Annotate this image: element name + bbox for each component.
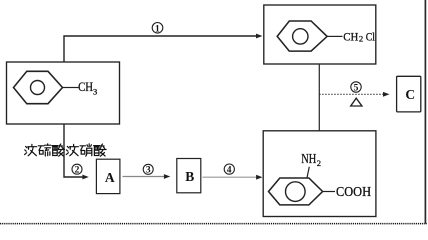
label CH2Cl <box>343 30 375 44</box>
right page border <box>424 0 426 224</box>
box B <box>177 159 201 193</box>
wire 1 (toluene to benzyl chloride) <box>64 34 263 62</box>
bottom dotted page border <box>0 223 427 225</box>
svg-text:COOH: COOH <box>336 184 371 199</box>
svg-text:NH: NH <box>301 151 316 166</box>
dashed wire 5 to C <box>319 92 389 97</box>
svg-text:1: 1 <box>155 24 160 34</box>
wire 2 (toluene down to A) <box>64 124 89 179</box>
svg-text:CH: CH <box>78 80 93 94</box>
bond to CH2Cl <box>327 35 342 37</box>
svg-text:A: A <box>105 170 115 185</box>
label NH2 <box>301 151 321 168</box>
reagent text nong-liu-suan-nong-xiao-suan <box>25 144 107 156</box>
box toluene <box>7 62 120 124</box>
arrow label 3 <box>143 164 153 175</box>
benzene ring 2 (benzyl chloride) <box>277 21 327 51</box>
wire 3 (A to B) <box>123 174 171 179</box>
bond to NH2 <box>307 167 309 178</box>
svg-text:2: 2 <box>75 166 80 176</box>
svg-text:C: C <box>405 87 415 102</box>
bond to CH3 <box>63 87 79 89</box>
svg-text:5: 5 <box>354 83 359 93</box>
wire 4 (B to anthranilic acid) <box>203 175 263 180</box>
benzene ring 3 (anthranilic acid) <box>269 178 323 205</box>
arrow label 4 <box>224 164 234 175</box>
box C <box>397 76 421 112</box>
svg-text:Cl: Cl <box>366 30 376 44</box>
svg-text:3: 3 <box>93 87 97 97</box>
svg-text:2: 2 <box>317 158 321 168</box>
bond to COOH <box>323 191 335 193</box>
wire benzyl chloride down to big box <box>318 64 320 131</box>
arrow label 5 <box>351 82 361 94</box>
label COOH <box>336 184 371 199</box>
arrow label 1 <box>152 23 163 35</box>
svg-text:B: B <box>185 169 194 184</box>
delta (heat) symbol <box>351 98 362 106</box>
label CH3 <box>78 80 97 97</box>
svg-text:CH: CH <box>343 30 358 44</box>
svg-text:2: 2 <box>359 33 363 43</box>
arrow label 2 <box>72 164 82 175</box>
box A <box>96 159 120 193</box>
benzene ring 1 (toluene) <box>14 71 63 103</box>
svg-text:3: 3 <box>146 166 151 176</box>
box anthranilic acid <box>263 131 376 217</box>
svg-text:4: 4 <box>227 165 232 175</box>
box benzyl chloride <box>264 5 376 64</box>
